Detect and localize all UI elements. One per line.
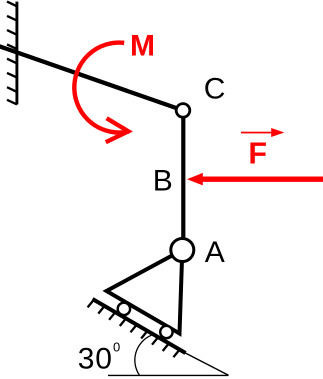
svg-text:30: 30 [78, 342, 113, 375]
svg-text:M: M [130, 30, 155, 63]
svg-text:C: C [204, 73, 226, 106]
svg-text:0: 0 [113, 340, 120, 355]
wall line [15, 2, 18, 105]
angle arc [135, 335, 152, 375]
moment arc M [74, 43, 129, 133]
pin circle A [171, 239, 194, 262]
moment arrowhead [106, 118, 129, 142]
svg-text:B: B [153, 165, 173, 198]
inclined ground line [93, 299, 186, 353]
triangle bracket [107, 250, 183, 334]
force arrow F [187, 173, 323, 186]
vertical bar C-B-A [181, 110, 185, 250]
incline hatch ticks [88, 300, 180, 357]
bar from wall to C [0, 46, 183, 111]
svg-text:A: A [205, 236, 225, 269]
vector overbar arrow above F [241, 128, 284, 137]
pin circle C [176, 104, 190, 118]
thin incline extension [180, 350, 229, 375]
svg-text:F: F [248, 136, 267, 170]
roller 2 [160, 326, 172, 338]
wall hatch ticks [7, 2, 17, 105]
roller 1 [118, 303, 130, 315]
fixed wall support (top left) [7, 2, 17, 105]
thin horizontal reference line [108, 374, 229, 376]
